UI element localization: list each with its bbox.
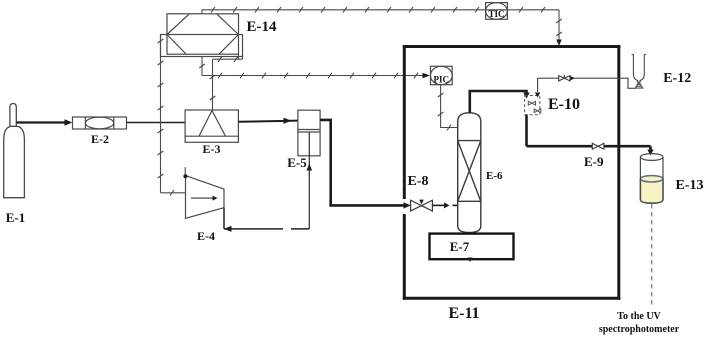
signal PIC to column E-6	[438, 85, 458, 131]
thick pipe column top to E-10	[470, 91, 527, 113]
svg-text:E-12: E-12	[663, 71, 691, 86]
pipe E-2 to E-3	[127, 122, 186, 124]
beaker E-13 with liquid	[640, 154, 663, 204]
svg-text:E-4: E-4	[197, 229, 215, 243]
signal line E-14 top to TIC	[202, 7, 559, 14]
box E-7	[430, 234, 514, 260]
instrument PIC	[430, 66, 452, 84]
svg-text:E-6: E-6	[486, 170, 503, 182]
gas cylinder E-1	[4, 104, 25, 198]
svg-text:E-1: E-1	[6, 210, 26, 225]
compressor E-4	[186, 176, 225, 219]
pipe E-3 to E-5 with arrow	[238, 118, 298, 124]
node junction E-4 inlet	[183, 174, 187, 178]
vertical pipe to E-3	[210, 59, 216, 110]
hatched line E-14 to E-3 riser top	[213, 56, 243, 62]
arrow inside E-4	[191, 196, 218, 201]
vessel E-5	[298, 110, 320, 156]
svg-text:TIC: TIC	[488, 9, 504, 19]
svg-text:spectrophotometer: spectrophotometer	[599, 324, 680, 335]
thick pipe E-10 down through valve E-9 to E-13	[527, 115, 651, 151]
pipe valve E-8 to column with arrow	[432, 202, 457, 208]
flowmeter E-2	[73, 117, 127, 129]
pipe E-4 inlet from left riser	[161, 192, 186, 194]
thin line E-10 up to relief valve toward E-12	[538, 78, 636, 92]
svg-text:PIC: PIC	[434, 75, 450, 85]
small arrow below E-7	[468, 258, 473, 263]
instrument TIC	[486, 3, 508, 20]
pipe E-4 outlet down and right	[224, 208, 309, 229]
thick pipe E-5 to valve E-8	[320, 120, 404, 205]
signal line E-14 to PIC	[199, 57, 426, 79]
svg-text:E-2: E-2	[91, 132, 109, 146]
dashed line to spectrophotometer	[651, 204, 653, 306]
pipe stubs E-14 right bottom	[239, 54, 243, 59]
signal drop TIC to E-11	[556, 10, 562, 43]
svg-text:E-9: E-9	[584, 154, 604, 169]
pipe E-1 to E-2 with arrow	[16, 119, 72, 125]
collection tube E-12	[632, 54, 647, 88]
svg-text:E-13: E-13	[676, 178, 704, 193]
svg-text:E-14: E-14	[247, 19, 278, 35]
svg-text:E-7: E-7	[450, 239, 470, 254]
svg-text:To the UV: To the UV	[617, 311, 661, 322]
left hatched riser from E-14	[158, 35, 164, 193]
sampling assembly E-10	[525, 96, 541, 115]
packed column E-6	[458, 113, 481, 233]
heater E-3	[185, 110, 238, 142]
valve E-8	[411, 200, 433, 211]
stub above E-4 with junction dot	[184, 167, 186, 176]
svg-text:E-8: E-8	[408, 174, 429, 189]
heat exchanger E-14	[161, 14, 243, 57]
svg-text:E-11: E-11	[448, 305, 479, 322]
enclosure box E-11	[403, 45, 621, 300]
pipe E-5 inner drop to E-4 loop	[307, 132, 313, 229]
svg-text:E-10: E-10	[548, 96, 580, 113]
svg-text:E-3: E-3	[203, 142, 221, 156]
svg-text:E-5: E-5	[287, 155, 307, 170]
relief valve	[559, 75, 570, 81]
valve E-9	[592, 143, 604, 149]
